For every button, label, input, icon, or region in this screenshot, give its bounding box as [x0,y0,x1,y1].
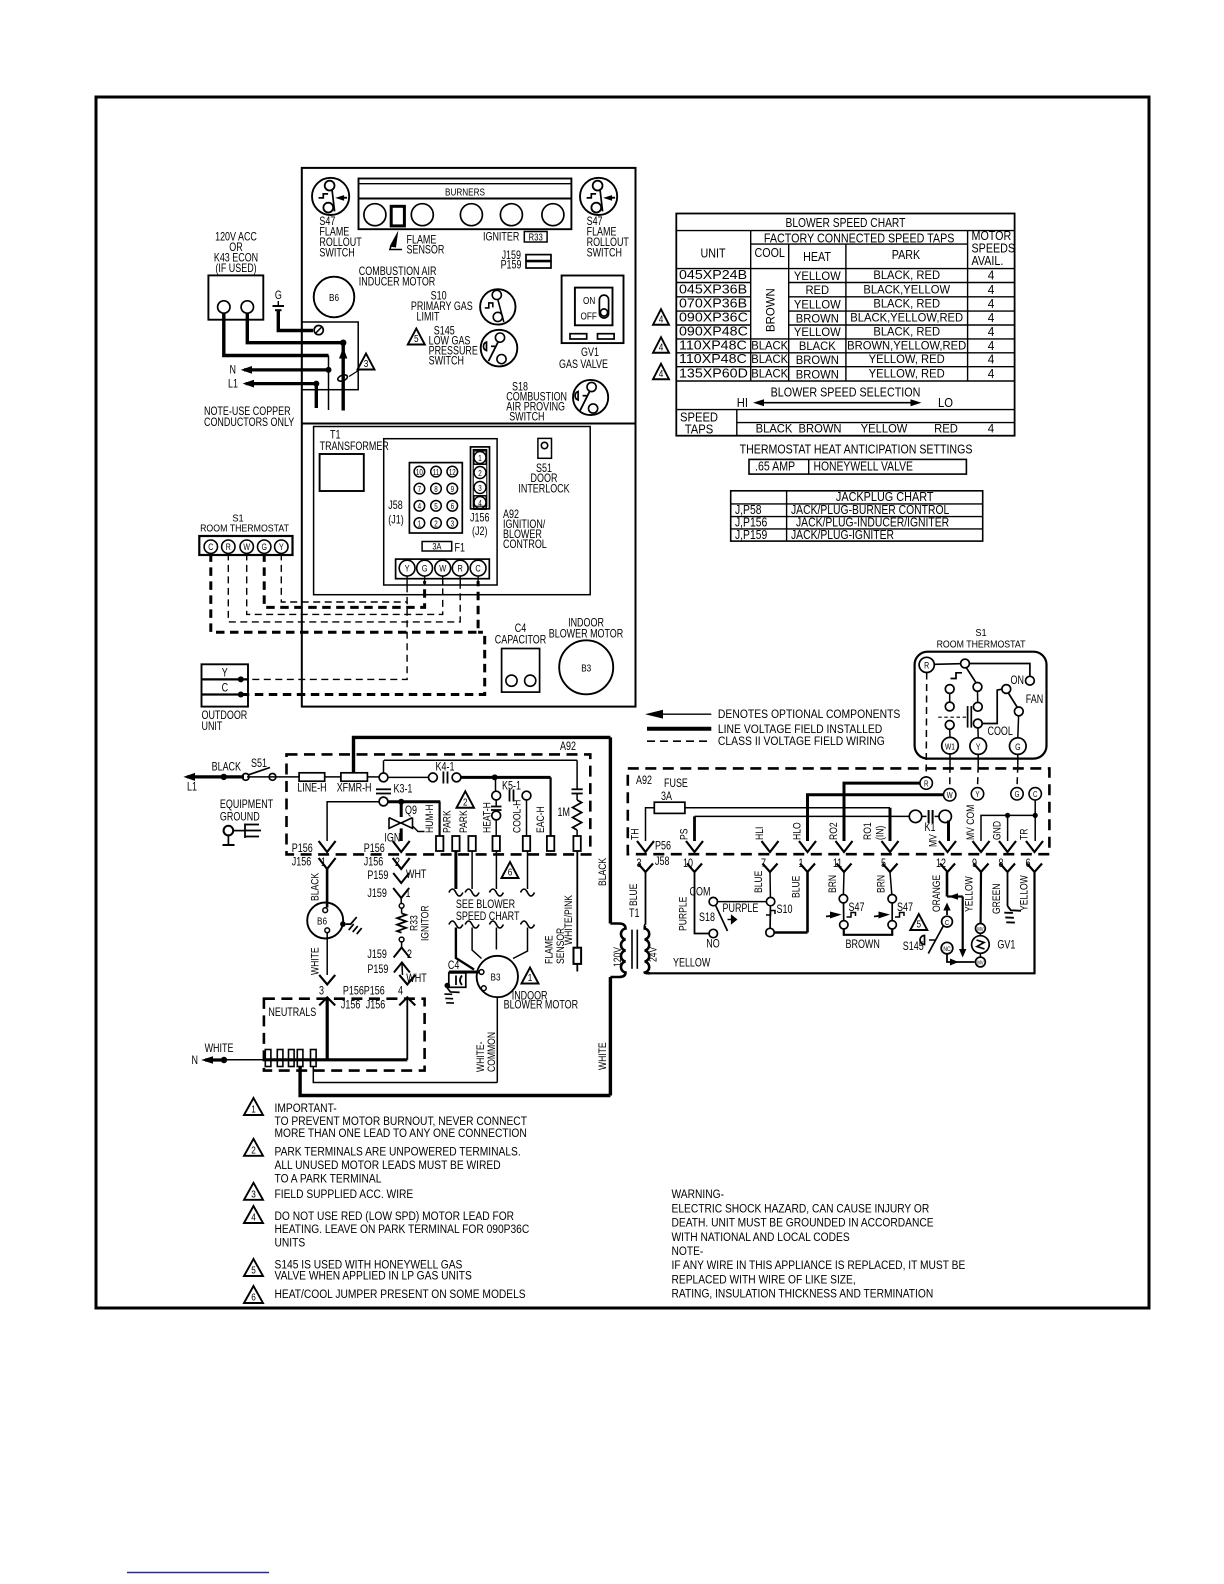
svg-text:COOL: COOL [988,726,1014,738]
J58 pin 6 [447,501,458,512]
svg-text:4: 4 [398,986,403,998]
svg-text:L1: L1 [187,782,197,794]
wire white common [496,997,498,1082]
aux contact lower [945,702,954,711]
svg-text:K3-1: K3-1 [394,784,413,796]
svg-text:6: 6 [1026,858,1031,870]
flame sensor supply wire [383,760,385,773]
T1 core [631,930,633,969]
svg-text:BLUE: BLUE [753,870,765,893]
svg-text:YELLOW: YELLOW [794,298,842,312]
thermostat R field wire [925,673,928,777]
field wire G [264,553,424,607]
J58 pin 11 [837,864,852,873]
svg-text:1: 1 [418,520,421,529]
field wire W [247,553,443,614]
svg-text:BROWN: BROWN [796,354,839,368]
svg-text:BLOWER MOTOR: BLOWER MOTOR [549,629,623,641]
svg-text:GAS VALVE: GAS VALVE [559,359,608,371]
svg-text:NOTE-: NOTE- [672,1245,704,1258]
anticipation table [749,459,966,474]
svg-text:WHITE: WHITE [205,1043,234,1055]
svg-text:3: 3 [637,858,642,870]
rollout switch S47 low 2 [888,895,896,903]
svg-text:2: 2 [251,1143,256,1155]
igniter resistor R33 [400,898,402,903]
svg-text:FAN: FAN [1026,694,1043,706]
svg-text:R: R [924,661,929,671]
thermostat terminal R [222,540,235,553]
svg-text:BLACK, RED: BLACK, RED [873,269,940,283]
thermostat terminal W [240,540,253,553]
svg-text:4: 4 [659,312,664,324]
terminal Y [970,738,987,755]
svg-text:3: 3 [451,520,454,529]
heat anticipator [951,673,963,679]
J58 pin 12 [447,466,458,477]
field wire outdoor C [241,632,485,694]
svg-text:HEAT/COOL JUMPER PRESENT ON SO: HEAT/COOL JUMPER PRESENT ON SOME MODELS [275,1288,526,1301]
furnace enclosure box [302,168,636,707]
svg-text:EAC-H: EAC-H [535,806,547,833]
svg-text:K5-1: K5-1 [502,781,521,793]
A92 low voltage dashed box [628,768,1050,854]
wire TH to fuse [646,808,655,841]
J58 pin 1 [414,518,425,529]
svg-text:4: 4 [251,1210,256,1222]
svg-text:4: 4 [418,503,421,512]
P56 pin RO1 [882,841,899,852]
field wire outdoor Y [241,602,407,679]
wire K3-1 to P156 pin1 [327,802,379,841]
indoor blower motor B3 [559,640,613,694]
svg-text:070XP36B: 070XP36B [679,296,747,310]
P56 pin TR [1026,841,1043,852]
J58 pin 3 [447,518,458,529]
burner 4 [500,204,522,226]
svg-text:TRANSFORMER: TRANSFORMER [320,441,389,453]
svg-text:BLUE: BLUE [628,883,640,906]
control compartment box [314,427,591,595]
svg-text:HEAT-H: HEAT-H [482,802,494,833]
svg-text:1: 1 [478,454,481,463]
svg-text:Y: Y [222,667,228,679]
svg-text:ALL UNUSED MOTOR LEADS MUST BE: ALL UNUSED MOTOR LEADS MUST BE WIRED [275,1159,501,1172]
flame sensor pointer [390,245,402,250]
svg-text:NO: NO [706,939,719,951]
svg-text:BLACK: BLACK [597,858,609,886]
svg-text:045XP36B: 045XP36B [679,282,747,296]
svg-text:YELLOW: YELLOW [794,269,842,283]
terminal Y [971,788,983,800]
T1 primary 120V [610,924,625,978]
J58 pin 3 [638,864,653,873]
svg-text:BROWN,YELLOW,RED: BROWN,YELLOW,RED [847,339,966,353]
svg-text:R: R [458,563,463,574]
burner 3 [460,204,482,226]
svg-text:FLAME: FLAME [544,935,556,964]
svg-text:JACK/PLUG-IGNITER: JACK/PLUG-IGNITER [791,529,894,542]
fan switch upper [1002,685,1011,694]
wire neutral bus [227,1059,267,1061]
thermostat terminal C [204,540,217,553]
wire to 120V primary top [354,737,611,772]
W1 upper contact [945,721,954,730]
svg-text:G: G [1015,791,1020,800]
note triangle 4 [244,1206,263,1223]
svg-text:P156: P156 [292,843,313,855]
motor lead wires to B3 [456,928,474,970]
svg-text:MORE THAN ONE LEAD TO ANY ONE: MORE THAN ONE LEAD TO ANY ONE CONNECTION [275,1127,527,1140]
J58 pin 5 [883,864,898,873]
wire K3-1 to HUM-H [388,800,440,803]
svg-text:(J2): (J2) [472,526,487,538]
gas valve terminal lugs [570,334,587,339]
svg-text:P156: P156 [364,986,385,998]
svg-text:YELLOW: YELLOW [964,876,976,912]
gas valve GV1 low [976,924,986,934]
svg-text:Y: Y [279,542,284,552]
svg-text:B6: B6 [329,291,339,303]
svg-text:C: C [222,683,229,695]
svg-text:B3: B3 [491,970,501,982]
svg-text:110XP48C: 110XP48C [679,338,747,352]
J58 pin 10 [687,864,702,873]
note triangle 3 [244,1183,263,1200]
svg-text:MV COM: MV COM [965,805,977,840]
svg-text:045XP24B: 045XP24B [679,267,747,281]
svg-text:090XP36C: 090XP36C [679,310,748,324]
svg-text:DENOTES OPTIONAL COMPONENTS: DENOTES OPTIONAL COMPONENTS [718,709,900,722]
svg-text:5: 5 [881,858,886,870]
svg-text:Y: Y [405,563,410,574]
svg-text:HUM-H: HUM-H [424,804,436,833]
svg-text:THERMOSTAT HEAT ANTICIPATION S: THERMOSTAT HEAT ANTICIPATION SETTINGS [740,443,973,457]
svg-text:1: 1 [251,1102,256,1114]
svg-text:J58: J58 [655,856,670,868]
svg-text:3: 3 [478,484,481,493]
wire neutral to T1 white [300,1067,610,1096]
svg-text:6: 6 [508,865,513,877]
wire NC to MV [947,954,975,962]
svg-text:J156: J156 [470,513,490,525]
wire Q9 to P156 pin2 [400,828,403,841]
transformer T1 box [320,454,364,491]
J58 pin 6 [1027,864,1042,873]
svg-text:P56: P56 [655,841,671,853]
indoor blower motor B3 [477,956,518,997]
svg-text:120V: 120V [612,947,624,967]
dashed link [938,716,966,718]
fan switch lower [1014,707,1023,716]
svg-text:LIMIT: LIMIT [417,312,441,324]
svg-text:4: 4 [988,367,995,381]
svg-text:BRN: BRN [827,875,839,893]
svg-text:SENSOR: SENSOR [555,928,567,964]
wire J156-4 to neutrals [406,997,408,1059]
L1 drop wire [315,384,318,408]
terminal G [1011,788,1023,800]
svg-text:P159: P159 [367,964,388,976]
svg-text:3: 3 [251,1187,256,1199]
svg-text:5: 5 [434,503,437,512]
svg-text:J,P159: J,P159 [735,529,767,542]
svg-text:SWITCH: SWITCH [429,356,464,368]
terminal G [417,560,433,576]
svg-text:WHITE: WHITE [597,1042,609,1070]
field wire R [228,553,460,622]
svg-text:9: 9 [451,485,454,494]
svg-text:GV1: GV1 [997,940,1015,952]
burner 2 [411,204,433,226]
ACC terminal right [241,301,253,313]
svg-text:4: 4 [988,297,995,311]
wire ACC right to hot junction [247,313,343,343]
svg-text:11: 11 [833,858,843,870]
alternate MV path [947,895,963,897]
svg-text:Q9: Q9 [405,805,417,817]
svg-text:YELLOW, RED: YELLOW, RED [869,353,945,367]
svg-text:J159: J159 [367,949,387,961]
note triangle 1 at motor [522,968,539,984]
heat switch blade [966,668,976,683]
wire flame sensor [576,851,578,948]
svg-text:J58: J58 [388,500,403,512]
svg-text:10: 10 [416,468,423,477]
svg-text:DEATH. UNIT MUST BE GROUNDED I: DEATH. UNIT MUST BE GROUNDED IN ACCORDAN… [672,1217,935,1230]
outdoor unit box [202,664,249,706]
terminal W1 [942,737,959,754]
svg-text:BLACK,YELLOW: BLACK,YELLOW [863,283,951,297]
svg-text:VALVE WHEN APPLIED IN LP GAS U: VALVE WHEN APPLIED IN LP GAS UNITS [275,1270,472,1283]
svg-text:.65 AMP: .65 AMP [755,460,795,474]
note triangle 5 [244,1259,263,1276]
svg-text:1M: 1M [558,807,570,819]
svg-text:GND: GND [992,821,1004,840]
svg-text:4: 4 [988,421,995,435]
thermostat terminal R [919,657,934,672]
svg-text:TR: TR [1019,829,1031,840]
svg-text:4: 4 [988,311,995,325]
svg-text:AVAIL.: AVAIL. [972,254,1004,268]
svg-text:2: 2 [478,469,481,478]
svg-text:A92: A92 [636,775,652,787]
svg-text:5: 5 [414,332,419,344]
svg-text:WHITE: WHITE [310,947,322,975]
flame sensor probe [391,206,404,226]
svg-text:1: 1 [799,858,804,870]
svg-text:SEE BLOWER: SEE BLOWER [456,899,515,911]
svg-text:8: 8 [434,485,437,494]
neutral drop wire [328,356,330,411]
svg-text:COMMON: COMMON [486,1032,498,1072]
svg-text:HI: HI [737,395,748,410]
legend optional components arrow [655,713,711,715]
svg-text:IGNITER: IGNITER [483,232,519,244]
low voltage terminal strip [396,559,490,579]
svg-text:4: 4 [988,283,995,297]
svg-text:C: C [1033,791,1037,800]
svg-text:K1: K1 [925,822,936,834]
svg-text:SPEED CHART: SPEED CHART [456,911,520,923]
svg-text:WHT: WHT [406,869,427,881]
motor lead squiggles [449,921,463,928]
svg-text:5: 5 [917,917,922,929]
svg-text:BLACK: BLACK [799,340,836,354]
svg-text:YELLOW, RED: YELLOW, RED [869,367,945,381]
svg-text:NC: NC [943,947,950,954]
svg-text:F1: F1 [455,543,466,555]
wire R to RO2 [844,783,920,841]
svg-text:MV: MV [977,960,984,967]
wire W to HLO [808,795,944,841]
wire COM to S10 [718,901,767,903]
svg-text:IGNITOR: IGNITOR [420,905,432,941]
svg-text:SWITCH: SWITCH [587,248,622,260]
mercury bulb [973,702,982,711]
terminal G [1010,738,1027,755]
svg-text:INTERLOCK: INTERLOCK [518,484,569,496]
capacitor C4 box [502,649,540,693]
svg-text:PURPLE: PURPLE [678,896,690,931]
svg-text:BLACK: BLACK [751,367,788,381]
svg-text:J156: J156 [292,857,312,869]
svg-text:PARK: PARK [892,248,921,262]
svg-text:6: 6 [451,503,454,512]
svg-text:TO A PARK TERMINAL: TO A PARK TERMINAL [275,1173,382,1186]
wire MV COM GND C TR [981,815,1035,841]
svg-text:4: 4 [988,325,995,339]
connector J58 grid box [409,463,462,533]
heat switch pivot [961,659,970,668]
svg-text:JACKPLUG CHART: JACKPLUG CHART [836,490,934,504]
svg-text:4: 4 [478,499,481,508]
svg-text:S51: S51 [251,758,267,770]
svg-text:HLI: HLI [754,827,766,840]
svg-text:COOL-H: COOL-H [512,800,524,833]
orange arrow to C [943,903,950,911]
fan switch blade [1008,693,1017,707]
aux contact upper [945,685,954,694]
resistor R33 igniter [524,232,547,243]
svg-text:1: 1 [528,971,533,983]
jackplug chart table [731,491,983,541]
J58 pin 4 [414,501,425,512]
svg-text:HEAT: HEAT [803,250,831,264]
burner 1 [364,204,386,226]
J58 pin 5 [431,501,442,512]
connector P156 pin3 [319,975,335,985]
svg-text:6: 6 [251,1290,256,1302]
thermostat terminal Y [275,540,288,553]
wire white from T1 [609,977,612,1096]
svg-text:3: 3 [364,357,369,369]
connector J156 pin4 [399,997,415,1005]
chart note triangle 4 row6 [653,337,669,353]
svg-text:FIELD SUPPLIED ACC. WIRE: FIELD SUPPLIED ACC. WIRE [275,1188,414,1201]
thermostat W1 field wire [949,754,951,766]
rollout switch S47 low 1 [839,895,847,903]
svg-text:S10: S10 [777,904,793,916]
wire black to T1 primary [609,737,612,923]
P56 pin RO2 [836,841,853,852]
svg-text:B6: B6 [317,914,327,926]
svg-text:W: W [947,792,953,801]
wire J156-3 to neutrals [326,997,329,1059]
svg-text:B3: B3 [581,661,591,673]
svg-text:BLACK: BLACK [751,339,788,353]
svg-text:HONEYWELL VALVE: HONEYWELL VALVE [814,461,914,474]
svg-text:YELLOW: YELLOW [794,326,842,340]
wire K5-1 to COOL-H [526,800,528,836]
wire blue T1 secondary [644,924,646,926]
cool contact upper [973,683,982,692]
P56 pin GND [999,841,1016,852]
relay coil K1 [909,810,921,822]
svg-text:P156: P156 [364,843,385,855]
svg-text:TAPS: TAPS [685,422,714,437]
wire to fan ON [969,664,1030,677]
svg-text:C: C [945,919,949,927]
svg-text:BLOWER SPEED CHART: BLOWER SPEED CHART [785,217,905,230]
svg-text:C: C [475,563,480,574]
chart note triangle 4 row4 [653,309,669,325]
J58 pin 8 [431,483,442,494]
P56 pin MV COM [973,841,990,852]
fuse 3A [654,802,685,813]
svg-text:110XP48C: 110XP48C [679,352,747,366]
svg-text:(IF USED): (IF USED) [215,263,256,275]
door interlock S51 [538,438,552,458]
svg-text:4: 4 [659,340,664,352]
svg-text:BLACK,YELLOW,RED: BLACK,YELLOW,RED [850,311,963,325]
svg-text:G: G [422,563,428,574]
burner 5 [542,204,564,226]
svg-text:CAPACITOR: CAPACITOR [495,635,546,647]
svg-text:BROWN: BROWN [796,312,839,326]
low gas pressure switch S145 [481,330,518,367]
svg-text:HLO: HLO [792,822,804,840]
svg-text:LINE-H: LINE-H [297,783,326,795]
svg-text:7: 7 [761,858,766,870]
svg-text:SWITCH: SWITCH [509,412,544,424]
flame rectifier capacitor [572,788,583,790]
svg-text:12: 12 [936,858,946,870]
svg-text:UNIT: UNIT [700,247,725,261]
svg-text:BLOWER MOTOR: BLOWER MOTOR [504,1000,578,1012]
svg-text:CONDUCTORS ONLY: CONDUCTORS ONLY [204,417,294,429]
svg-text:ON: ON [583,294,595,306]
wire L1 black [247,776,299,778]
svg-text:090XP48C: 090XP48C [679,324,748,338]
terminal R [920,777,932,789]
limit switch S10 low [766,897,774,905]
cool fan interlock wire [982,689,1002,723]
P56 pin PS [686,841,703,852]
J58 pin 7 [414,483,425,494]
legend line voltage [647,727,711,731]
svg-text:BLOWER SPEED SELECTION: BLOWER SPEED SELECTION [771,386,921,400]
svg-text:BROWN: BROWN [796,368,839,382]
svg-text:BROWN: BROWN [846,939,880,951]
svg-text:COM: COM [690,887,711,899]
svg-text:P156: P156 [343,986,364,998]
svg-text:MV: MV [928,834,940,847]
wire K4-1 to EAC-H [461,776,551,779]
svg-text:OFF: OFF [581,309,598,321]
svg-text:3A: 3A [432,540,441,551]
svg-text:J159: J159 [367,888,387,900]
